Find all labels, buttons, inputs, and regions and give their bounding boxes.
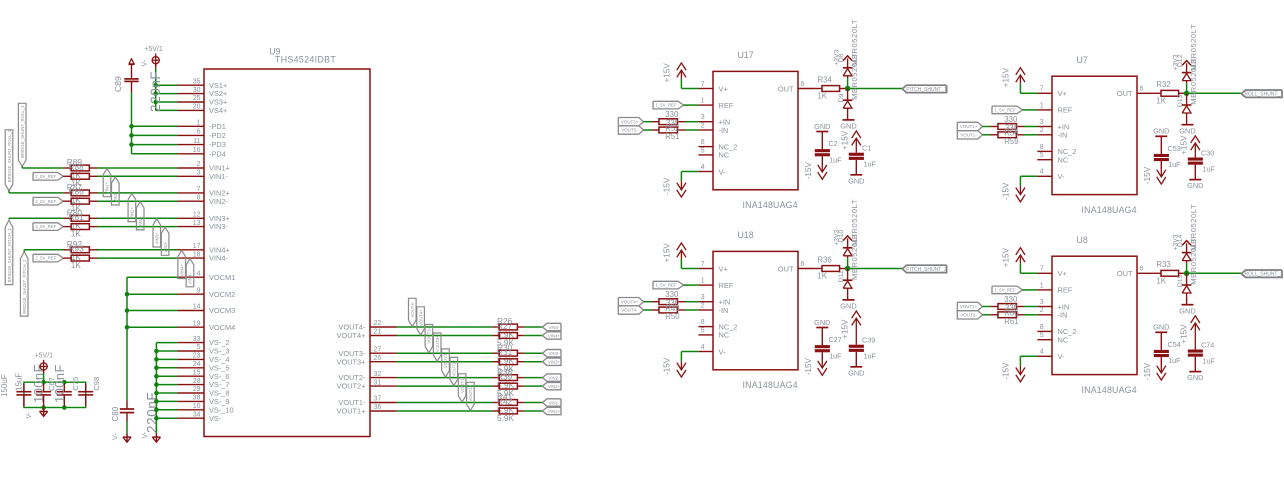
svg-text:8: 8 (1040, 324, 1044, 331)
diode D10 MBR0520LT (to +3V3) (838, 199, 859, 258)
svg-text:VIN4-: VIN4- (549, 325, 561, 330)
ground GND above C53 (1153, 127, 1169, 137)
svg-text:1uF: 1uF (829, 351, 842, 360)
svg-text:BRIDGE_SHUNT_PITCH_2: BRIDGE_SHUNT_PITCH_2 (22, 259, 27, 314)
supply -15V at U8 (1001, 362, 1025, 382)
svg-text:2: 2 (701, 302, 705, 309)
wire 1_5V_REF to U7 REF (1023, 109, 1038, 111)
svg-text:4: 4 (197, 270, 201, 277)
wire U9 VOUT row to R39 (397, 385, 493, 387)
svg-text:U8: U8 (1077, 235, 1088, 245)
U18 pin 8 NC_2 (698, 319, 737, 331)
wire U9 VOUT row to R26 (397, 326, 493, 328)
svg-text:VOUT4+: VOUT4+ (418, 309, 423, 326)
svg-text:5: 5 (701, 147, 705, 154)
svg-text:D15: D15 (1177, 274, 1184, 287)
svg-text:1uF: 1uF (864, 352, 877, 361)
svg-text:2: 2 (1040, 307, 1044, 314)
wire U9 VOUT row to R38 (397, 377, 493, 379)
svg-text:INA148UAG4: INA148UAG4 (1082, 385, 1137, 395)
wire 1_5V_REF to U18 REF (684, 284, 699, 286)
svg-text:GND: GND (848, 176, 864, 185)
wire +15V to U8 V+ (1020, 264, 1037, 274)
net flag VOUT2+ (957, 302, 982, 310)
svg-text:+15V: +15V (663, 243, 672, 263)
svg-text:R33: R33 (1156, 260, 1170, 269)
svg-text:34: 34 (193, 411, 201, 418)
svg-text:R39: R39 (497, 371, 513, 381)
net label VIN3- (rotated) (161, 227, 169, 255)
net label VOUT4+ (rotated) (417, 307, 425, 335)
net flag VOUT3- (618, 126, 643, 134)
wire node to flag ROLL_SHUNT_2 (1187, 272, 1242, 274)
svg-text:1_5V_REF: 1_5V_REF (656, 103, 677, 108)
wire R60 to U8 +IN (1024, 306, 1037, 308)
wire BRIDGE_SHUNT_ROLL_1 net (22, 167, 63, 169)
svg-text:5: 5 (1040, 332, 1044, 339)
svg-text:1K: 1K (71, 228, 82, 238)
supply +15V at U7 (1002, 67, 1025, 87)
U9 pin 35 VS1+ (178, 78, 228, 89)
net flag 1_5V_REF (653, 281, 684, 289)
svg-text:VOUT2+: VOUT2+ (337, 382, 366, 391)
svg-text:11: 11 (193, 138, 200, 145)
U9 pin 30 VS2+ (178, 87, 228, 98)
capacitor C30 1uF (1188, 148, 1216, 179)
svg-text:7: 7 (701, 81, 705, 88)
U9 pin 20 VS4+ (178, 104, 228, 115)
resistor R27 5.9K (493, 321, 524, 348)
svg-text:V-: V- (142, 431, 149, 438)
svg-text:VIN4-: VIN4- (188, 273, 193, 285)
junction dots bypass rails (41, 380, 66, 410)
svg-text:VIN1-: VIN1- (113, 191, 118, 203)
net flag BRIDGE_SHUNT_PITCH_1 (5, 218, 13, 284)
svg-text:C98: C98 (92, 377, 101, 391)
svg-text:R42: R42 (497, 396, 513, 406)
svg-text:PITCH_SHUNT_2: PITCH_SHUNT_2 (906, 267, 947, 273)
svg-text:22: 22 (374, 320, 382, 327)
resistor R32 1K (1154, 80, 1187, 105)
wire VOUT2+ to resistor (983, 306, 991, 308)
supply +15V at U18 (663, 243, 686, 263)
U8 pin 2 -IN (1037, 307, 1067, 319)
wire D14 to node (1186, 263, 1188, 273)
wire VS- rail (156, 343, 177, 434)
svg-text:INA148UAG4: INA148UAG4 (743, 380, 798, 390)
wire R38 to flag VIN2- (524, 377, 543, 379)
supply -15V at U7 (1001, 182, 1025, 202)
wire C89 to -PD1..4 pins (132, 93, 178, 154)
wire C80 to V- (126, 422, 128, 434)
resistor R51 330 (-IN) (652, 127, 686, 133)
svg-text:D14: D14 (1177, 234, 1184, 247)
resistor R80 1K (63, 208, 97, 231)
svg-text:2_5V_REF: 2_5V_REF (35, 256, 56, 261)
svg-text:-15V: -15V (804, 161, 813, 179)
svg-text:R59: R59 (1004, 137, 1018, 146)
capacitor C1 1uF (849, 144, 877, 175)
resistor R52 330 (+IN) (652, 119, 686, 125)
capacitor C67 (36, 384, 51, 407)
net label VOUT4- (rotated) (409, 298, 417, 326)
capacitor C74 1uF (1188, 340, 1216, 371)
wire VOUT1- to resistor (983, 134, 991, 136)
op-amp U9 THS4524IDBT box (204, 46, 370, 436)
U9 pin 32 VOUT2- (338, 371, 396, 382)
svg-text:5: 5 (701, 327, 705, 334)
supply +3V3 at U7 clamp (1172, 54, 1191, 72)
svg-text:9: 9 (197, 287, 201, 294)
svg-text:-PD2: -PD2 (209, 131, 226, 140)
svg-text:2: 2 (197, 161, 201, 168)
svg-text:+15V: +15V (1002, 247, 1011, 267)
resistor R36 1K (815, 255, 848, 280)
svg-text:38: 38 (193, 395, 201, 402)
supply +3V3 at U8 clamp (1172, 234, 1191, 252)
net flag 2_5V_REF (33, 173, 63, 181)
svg-text:C39: C39 (862, 336, 875, 345)
svg-text:R61: R61 (1004, 317, 1018, 326)
net flag VOUT4- (618, 306, 643, 314)
svg-text:VIN3-: VIN3- (209, 222, 228, 231)
wire R52 to U17 +IN (685, 121, 698, 123)
svg-text:150uF: 150uF (0, 374, 9, 397)
svg-text:100nF: 100nF (31, 364, 46, 403)
wire +5V to bypass rail (43, 373, 45, 382)
net label VIN4+ (rotated) (178, 250, 186, 278)
svg-text:R50: R50 (665, 312, 680, 321)
U18 pin 5 NC (698, 327, 729, 339)
svg-text:5: 5 (197, 344, 201, 351)
svg-text:-15V: -15V (1001, 182, 1010, 200)
resistor R38 5.9K (493, 367, 524, 390)
svg-text:1K: 1K (1156, 96, 1166, 105)
wire R86 to U9 VIN2- (98, 200, 178, 202)
net flag VOUT3+ (618, 118, 643, 126)
wire D10 to node (847, 258, 849, 268)
svg-text:C80: C80 (111, 406, 120, 421)
svg-text:4: 4 (1040, 349, 1044, 356)
svg-text:C2: C2 (829, 139, 838, 148)
U9 pin 3 VIN1- (178, 170, 229, 181)
svg-text:4: 4 (701, 164, 705, 171)
resistor R31 5.9K (493, 347, 524, 374)
node PITCH_SHUNT_2 junction (845, 266, 851, 272)
svg-text:16: 16 (193, 147, 201, 154)
svg-text:VOUT4+: VOUT4+ (337, 331, 366, 340)
svg-text:U18: U18 (738, 230, 754, 240)
svg-text:VOUT3-: VOUT3- (427, 327, 432, 343)
op-amp U8 INA148UAG4 box (1052, 235, 1137, 395)
svg-text:VOUT2+: VOUT2+ (960, 304, 978, 309)
svg-text:VIN2-: VIN2- (138, 216, 143, 228)
svg-text:7: 7 (1040, 86, 1044, 93)
svg-text:2_5V_REF: 2_5V_REF (35, 224, 56, 229)
svg-text:23: 23 (193, 353, 201, 360)
svg-text:GND: GND (814, 318, 830, 327)
svg-text:V-: V- (1058, 172, 1066, 181)
svg-text:D11: D11 (838, 270, 845, 282)
svg-text:VOUT3+: VOUT3+ (435, 335, 440, 352)
wire BRIDGE_SHUNT_ROLL_2 net (9, 192, 63, 194)
wire node to flag ROLL_SHUNT_1 (1187, 92, 1242, 94)
svg-text:V-: V- (1058, 352, 1066, 361)
svg-text:VOUT1+: VOUT1+ (960, 124, 978, 129)
supply +3V3 at U17 clamp (833, 49, 852, 67)
supply -15V at U18 (662, 357, 686, 377)
svg-text:C89: C89 (113, 76, 123, 92)
svg-text:REF: REF (1058, 286, 1073, 295)
svg-text:10: 10 (193, 403, 201, 410)
net label VIN3+ (rotated) (153, 219, 161, 247)
svg-text:VIN2-: VIN2- (209, 197, 228, 206)
U17 pin 1 REF (698, 98, 733, 110)
svg-text:+15V: +15V (841, 130, 850, 150)
svg-text:C30: C30 (1201, 148, 1214, 157)
svg-text:GND: GND (1153, 127, 1169, 136)
resistor R42 5.9K (493, 396, 524, 423)
svg-text:30: 30 (193, 87, 201, 94)
svg-text:V+: V+ (1058, 89, 1067, 98)
U8 pin 5 NC (1037, 332, 1068, 344)
ground GND below D15 (1179, 305, 1195, 316)
svg-text:1_5V_REF: 1_5V_REF (995, 288, 1016, 293)
wire R59 to U7 -IN (1024, 134, 1037, 136)
svg-text:V-: V- (719, 347, 727, 356)
U9 pin 25 VS3+ (178, 95, 228, 106)
wire VOUT4- to resistor (644, 309, 652, 311)
svg-text:VOCM2: VOCM2 (209, 290, 235, 299)
svg-text:VOUT3+: VOUT3+ (337, 357, 366, 366)
supply -15V at U17 (662, 177, 686, 197)
U17 pin 3 +IN (698, 114, 730, 126)
wire D8 to node (847, 78, 849, 88)
U9 pin 24 VS-_5 (178, 361, 230, 372)
svg-text:R51: R51 (665, 132, 679, 141)
svg-text:VOUT4-: VOUT4- (621, 308, 638, 313)
U9 pin 13 VIN3- (178, 220, 229, 231)
ground GND below C74 (1187, 372, 1203, 383)
ground GND below C30 (1187, 180, 1203, 191)
svg-text:BRIDGE_SHUNT_ROLL_2: BRIDGE_SHUNT_ROLL_2 (7, 129, 12, 182)
svg-text:INA148UAG4: INA148UAG4 (743, 200, 798, 210)
wire U9 VOUT row to R41 (397, 402, 493, 404)
wire 1_5V_REF to U8 REF (1023, 289, 1038, 291)
svg-text:V+: V+ (719, 264, 728, 273)
wire R31 to flag VIN3+ (524, 361, 543, 363)
wire node to flag PITCH_SHUNT_2 (848, 268, 903, 270)
svg-text:VIN1-: VIN1- (549, 400, 561, 405)
wire R42 to flag VIN1+ (524, 410, 543, 412)
svg-text:8: 8 (701, 319, 705, 326)
U9 pin 9 VOCM2 (178, 287, 236, 298)
svg-text:+15V: +15V (1002, 67, 1011, 87)
net flag VIN4+ (542, 332, 561, 339)
resistor R61 330 (-IN) (991, 312, 1025, 318)
svg-text:1: 1 (1040, 282, 1044, 289)
supply V- arrow below VS- rail (142, 431, 161, 442)
net label VOUT3- (rotated) (425, 325, 433, 353)
svg-text:VIN4+: VIN4+ (179, 263, 184, 276)
net flag 1_5V_REF (992, 286, 1023, 294)
wire R88 to U9 VIN1- (98, 175, 178, 177)
svg-text:VOUT1+: VOUT1+ (468, 384, 473, 401)
net label VOUT2+ (rotated) (450, 357, 458, 385)
U9 pin 38 VS-_9 (178, 395, 230, 406)
U9 pin 36 VOUT1+ (337, 404, 397, 415)
svg-text:3: 3 (701, 294, 705, 301)
supply +15V above C74 (1180, 316, 1200, 350)
svg-text:GND: GND (814, 122, 830, 131)
net flag VIN2+ (542, 382, 561, 389)
svg-text:OUT: OUT (1117, 269, 1133, 278)
svg-text:VIN4-: VIN4- (209, 254, 228, 263)
net flag VOUT4+ (618, 298, 643, 306)
U9 pin 31 VOUT2+ (337, 379, 397, 390)
U17 pin 6 OUT (778, 81, 815, 93)
svg-text:VIN3+: VIN3+ (548, 360, 561, 365)
U18 pin 7 V+ (698, 261, 727, 273)
wire U9 VOUT row to R27 (397, 335, 493, 337)
svg-text:-15V: -15V (804, 357, 813, 375)
svg-text:7: 7 (1040, 266, 1044, 273)
svg-text:GND: GND (1187, 373, 1203, 382)
svg-text:VOCM4: VOCM4 (209, 323, 235, 332)
diode D11 MBR0520LT (to GND) (838, 233, 859, 300)
svg-text:26: 26 (374, 355, 382, 362)
wire R41 to flag VIN1- (524, 402, 543, 404)
wire R92 to U9 VIN4+ (98, 249, 178, 251)
svg-text:GND: GND (1187, 181, 1203, 190)
wire node to flag PITCH_SHUNT_1 (848, 88, 903, 90)
svg-text:GND: GND (848, 368, 864, 377)
svg-text:R31: R31 (497, 347, 513, 357)
U9 pin 15 VS-_6 (178, 369, 230, 380)
svg-text:-15V: -15V (1143, 166, 1152, 184)
svg-text:4: 4 (701, 344, 705, 351)
wire R81 to U9 VIN3- (98, 226, 178, 228)
U7 pin 1 REF (1037, 102, 1072, 114)
U9 pin 7 VIN2+ (178, 186, 230, 197)
U9 pin 11 -PD3 (178, 138, 226, 149)
U8 pin 8 NC_2 (1037, 324, 1076, 336)
svg-text:R27: R27 (497, 321, 513, 331)
svg-text:GND: GND (1179, 306, 1195, 315)
svg-text:VOUT3+: VOUT3+ (621, 119, 639, 124)
wire VOCM1-4 rail (127, 277, 178, 400)
svg-text:6: 6 (1140, 266, 1144, 273)
wire R30 to flag VIN3- (524, 352, 543, 354)
wire +5V net to VS1-4 pins (156, 68, 178, 110)
svg-text:24: 24 (193, 361, 201, 368)
svg-text:20: 20 (193, 104, 201, 111)
svg-text:VOUT1-: VOUT1- (960, 133, 977, 138)
U18 pin 4 V- (698, 344, 726, 356)
svg-text:VIN3-: VIN3- (549, 351, 561, 356)
svg-text:-PD4: -PD4 (209, 149, 226, 158)
svg-text:D12: D12 (1177, 54, 1184, 67)
wire 1_5V_REF to U17 REF (684, 104, 699, 106)
U9 pin 23 VS-_4 (178, 353, 230, 364)
svg-text:VOUT2-: VOUT2- (443, 352, 448, 368)
svg-text:NC: NC (719, 331, 730, 340)
svg-text:BRIDGE_SHUNT_PITCH_1: BRIDGE_SHUNT_PITCH_1 (7, 228, 12, 283)
U9 pin 12 VIN3+ (178, 212, 230, 223)
wire bypass rail loop (24, 382, 86, 407)
svg-text:NC: NC (1058, 336, 1069, 345)
U9 pin 29 VS-_8 (178, 386, 230, 397)
svg-text:3: 3 (701, 114, 705, 121)
svg-text:4: 4 (1040, 169, 1044, 176)
U17 pin 8 NC_2 (698, 139, 737, 151)
svg-text:VOUT3-: VOUT3- (621, 128, 638, 133)
resistor R60 330 (+IN) (991, 304, 1025, 310)
resistor R30 5.9K (493, 342, 524, 365)
svg-text:6: 6 (197, 129, 201, 136)
svg-text:VOUT1-: VOUT1- (460, 377, 465, 393)
resistor R87 1K (63, 182, 97, 205)
net flag PITCH_SHUNT_1 (902, 85, 947, 93)
svg-text:VS-: VS- (209, 414, 222, 423)
svg-text:V+: V+ (1058, 269, 1067, 278)
svg-text:13: 13 (193, 220, 201, 227)
wire -15V to U17 V- (681, 172, 698, 182)
svg-text:31: 31 (374, 379, 382, 386)
U7 pin 2 -IN (1037, 127, 1067, 139)
svg-text:220nF: 220nF (148, 71, 163, 112)
U9 pin 8 VIN2- (178, 194, 229, 205)
svg-text:C75: C75 (71, 377, 80, 391)
supply +15V at U17 (663, 63, 686, 83)
svg-text:VOUT4-: VOUT4- (410, 301, 415, 317)
U17 pin 4 V- (698, 164, 726, 176)
wire VOUT4+ to resistor (644, 301, 652, 303)
wire VOUT3+ to resistor (644, 121, 652, 123)
svg-text:D9: D9 (838, 93, 845, 102)
svg-text:220nF: 220nF (145, 392, 160, 433)
svg-text:R88: R88 (69, 162, 85, 172)
wire R93 to U9 VIN4- (98, 257, 178, 259)
net flag 1_5V_REF (992, 106, 1023, 114)
svg-text:1uF: 1uF (1203, 164, 1216, 173)
svg-text:25: 25 (193, 95, 201, 102)
svg-text:VOCM1: VOCM1 (209, 273, 235, 282)
diode D8 MBR0520LT (to +3V3) (838, 19, 859, 78)
svg-text:7: 7 (197, 186, 201, 193)
U9 pin 2 VIN1+ (178, 161, 230, 172)
svg-text:-IN: -IN (1058, 311, 1068, 320)
svg-text:1: 1 (701, 278, 705, 285)
svg-text:12: 12 (193, 212, 201, 219)
svg-text:C1: C1 (862, 144, 871, 153)
svg-text:6: 6 (801, 81, 805, 88)
U9 pin 21 VOUT4+ (337, 329, 397, 340)
node ROLL_SHUNT_1 junction (1184, 91, 1190, 97)
svg-text:V+: V+ (719, 84, 728, 93)
svg-text:5.9K: 5.9K (497, 413, 515, 423)
ground GND below D9 (840, 120, 856, 131)
svg-text:8: 8 (197, 194, 201, 201)
svg-text:+15V: +15V (841, 319, 850, 339)
wire R50 to U18 -IN (685, 309, 698, 311)
U9 pin 27 VOUT3- (338, 346, 396, 357)
svg-text:BRIDGE_SHUNT_ROLL_1: BRIDGE_SHUNT_ROLL_1 (20, 105, 25, 158)
op-amp U7 INA148UAG4 box (1052, 55, 1137, 215)
svg-text:VIN1+: VIN1+ (548, 409, 561, 414)
resistor R33 1K (1154, 260, 1187, 285)
U8 pin 7 V+ (1037, 266, 1066, 278)
